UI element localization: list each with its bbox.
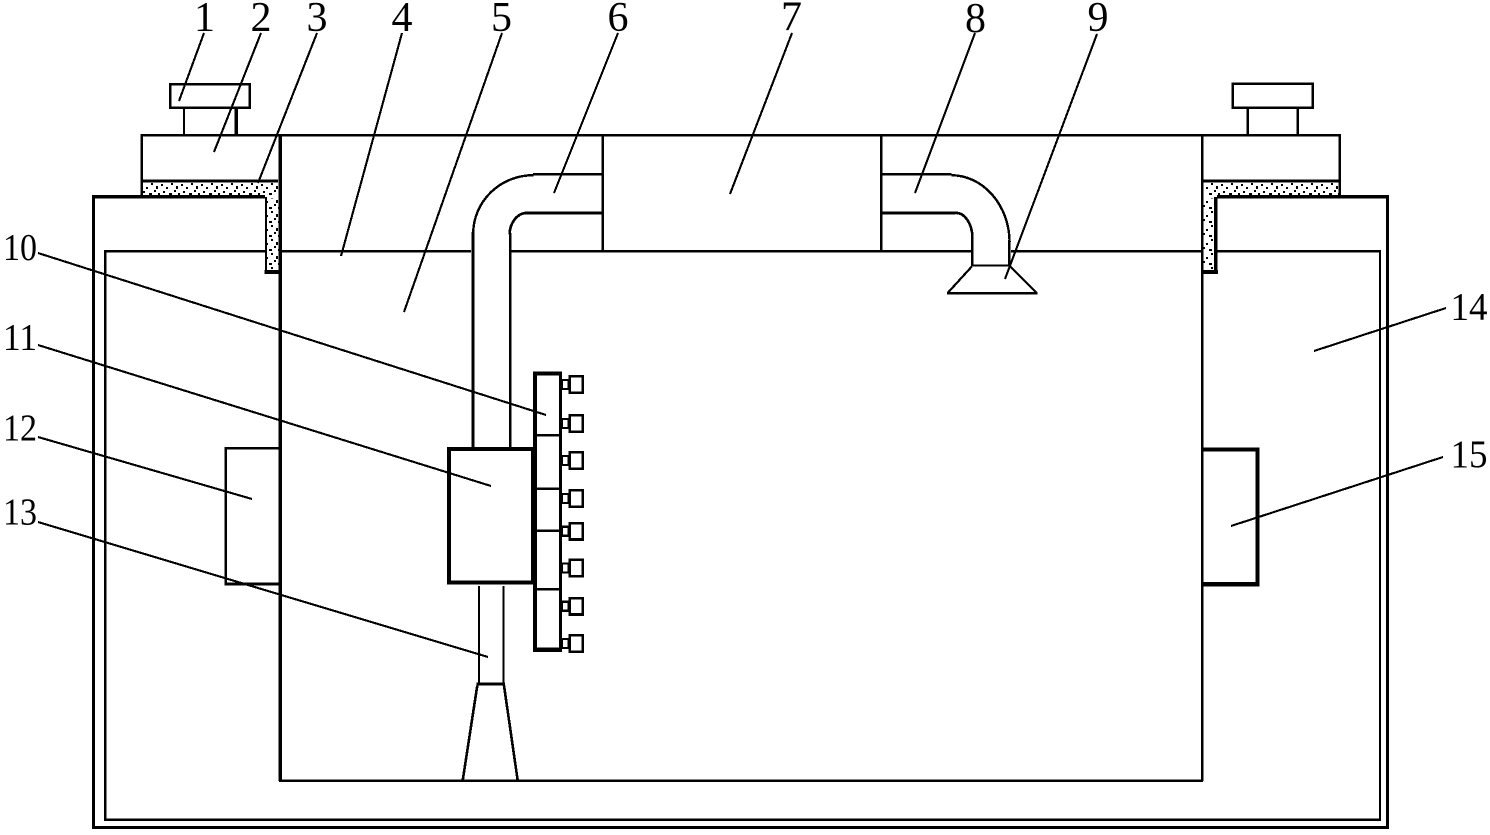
lid divider at x881 — [880, 134, 882, 252]
inner tank top line segment A2 — [282, 250, 471, 252]
svg-text:14: 14 — [1451, 285, 1488, 329]
svg-text:10: 10 — [3, 227, 37, 269]
nozzle 7 head — [570, 598, 583, 614]
leader line 9 — [1005, 34, 1097, 279]
right lid flange right border — [1214, 197, 1217, 270]
left lid flange (dotted) — [267, 198, 279, 270]
leader line 5 — [404, 33, 502, 312]
manifold division 2 — [537, 488, 559, 491]
nozzle 6 stub — [562, 564, 569, 573]
left lid flange bottom cap — [265, 270, 279, 274]
spray pipe upper right edge — [509, 233, 511, 448]
outer tank box left wall — [92, 196, 95, 829]
funnel right side — [1010, 267, 1036, 293]
leader line 3 — [258, 33, 317, 183]
manifold bar bottom edge — [533, 648, 562, 652]
nozzle 1 head — [570, 376, 583, 392]
leader line 7 — [730, 33, 792, 194]
nozzle 7 stub — [562, 602, 569, 611]
svg-text:3: 3 — [307, 0, 328, 41]
svg-text:2: 2 — [251, 0, 272, 41]
manifold division 3 — [537, 530, 559, 533]
right elbow pipe bottom thick line — [881, 211, 956, 214]
leader line 4 — [341, 33, 402, 256]
left clamp stem right — [235, 109, 238, 135]
leader line 6 — [554, 33, 618, 193]
manifold bar left edge — [533, 371, 537, 651]
lid divider at x602 — [602, 134, 604, 252]
left lid flange left border — [265, 197, 267, 271]
right clamp plate — [1233, 84, 1313, 108]
inner tank top line segment C — [1011, 250, 1201, 252]
lower spray pipe left edge — [478, 586, 480, 684]
right lid block right edge — [1339, 134, 1342, 196]
cone joint line — [477, 682, 506, 685]
svg-text:4: 4 — [392, 0, 413, 41]
inner tank top line segment A — [104, 250, 265, 252]
leader line 12 — [38, 437, 252, 499]
right elbow pipe outer arc — [952, 175, 1010, 242]
manifold division 1 — [537, 434, 559, 437]
right lid flange bottom cap — [1203, 270, 1217, 274]
spray pipe upper left edge — [472, 232, 475, 448]
leader line 1 — [179, 33, 204, 101]
funnel top line — [971, 264, 1011, 266]
inner tank wall left — [104, 250, 106, 820]
leader line 14 — [1314, 308, 1446, 351]
left elbow pipe top line — [533, 173, 602, 175]
right elbow pipe inner arc — [956, 213, 973, 238]
nozzle 8 stub — [562, 639, 569, 648]
lid top plate top edge — [141, 134, 1341, 136]
right lid seal strip (dotted) — [1205, 182, 1339, 196]
inner tank top line segment B — [511, 250, 971, 252]
right bracket — [1202, 450, 1257, 585]
nozzle 1 stub — [562, 380, 569, 389]
manifold division 4 — [537, 588, 559, 591]
left lid block bottom line — [141, 180, 278, 183]
funnel bottom line — [947, 292, 1038, 294]
right clamp stem left — [1246, 109, 1249, 135]
right elbow pipe top line — [881, 173, 952, 175]
svg-text:11: 11 — [3, 317, 37, 359]
drop pipe left edge — [971, 236, 973, 266]
lower spray pipe right edge — [502, 586, 504, 684]
left lid block left edge — [141, 134, 144, 196]
leader line 11 — [38, 345, 491, 486]
nozzle 2 head — [570, 415, 583, 431]
svg-text:6: 6 — [608, 0, 629, 41]
inner tank top line segment C2 — [1217, 250, 1381, 252]
right partition wall — [1201, 134, 1204, 781]
nozzle 3 stub — [562, 456, 569, 465]
pump box — [449, 449, 533, 582]
manifold bar right edge — [559, 371, 562, 651]
left elbow pipe bottom thick line — [526, 211, 602, 214]
inner tank wall right — [1379, 250, 1381, 820]
left elbow pipe inner arc — [510, 213, 527, 235]
funnel left side — [948, 267, 972, 293]
left bracket — [226, 448, 281, 584]
drop pipe right edge — [1008, 240, 1010, 266]
nozzle 5 head — [570, 523, 583, 539]
cone right side — [504, 686, 518, 780]
leader line 8 — [915, 33, 975, 193]
leader line 10 — [38, 253, 546, 415]
svg-text:7: 7 — [781, 0, 802, 41]
inner chamber floor — [279, 779, 1203, 782]
outer tank box right wall — [1386, 196, 1389, 829]
svg-text:1: 1 — [194, 0, 215, 41]
svg-text:15: 15 — [1451, 432, 1488, 476]
left clamp plate — [170, 84, 250, 108]
left partition wall — [279, 134, 282, 781]
svg-text:5: 5 — [491, 0, 512, 41]
nozzle 3 head — [570, 452, 583, 468]
svg-text:13: 13 — [3, 492, 37, 534]
nozzle 4 head — [570, 490, 583, 506]
nozzle 6 head — [570, 560, 583, 576]
nozzle 5 stub — [562, 527, 569, 536]
inner tank wall bottom — [104, 819, 1381, 821]
svg-text:12: 12 — [3, 407, 37, 449]
cone left side — [463, 686, 478, 780]
nozzle 8 head — [570, 635, 583, 651]
left lid seal strip (dotted) — [143, 182, 278, 196]
nozzle 2 stub — [562, 419, 569, 428]
leader line 2 — [214, 33, 261, 152]
left clamp stem left — [183, 109, 185, 135]
leader line 13 — [38, 522, 488, 657]
right clamp stem right — [1296, 109, 1299, 135]
right lid flange (dotted) — [1204, 198, 1214, 270]
left elbow pipe outer arc — [473, 175, 533, 233]
outer tank box bottom wall — [92, 826, 1389, 829]
svg-text:9: 9 — [1088, 0, 1109, 41]
outer tank rim top-right segment — [1217, 195, 1389, 198]
outer tank rim top-left segment — [92, 195, 265, 198]
manifold bar top edge — [533, 371, 562, 375]
right lid block bottom line — [1203, 180, 1341, 183]
leader line 15 — [1231, 457, 1443, 526]
nozzle 4 stub — [562, 494, 569, 503]
svg-text:8: 8 — [965, 0, 986, 42]
